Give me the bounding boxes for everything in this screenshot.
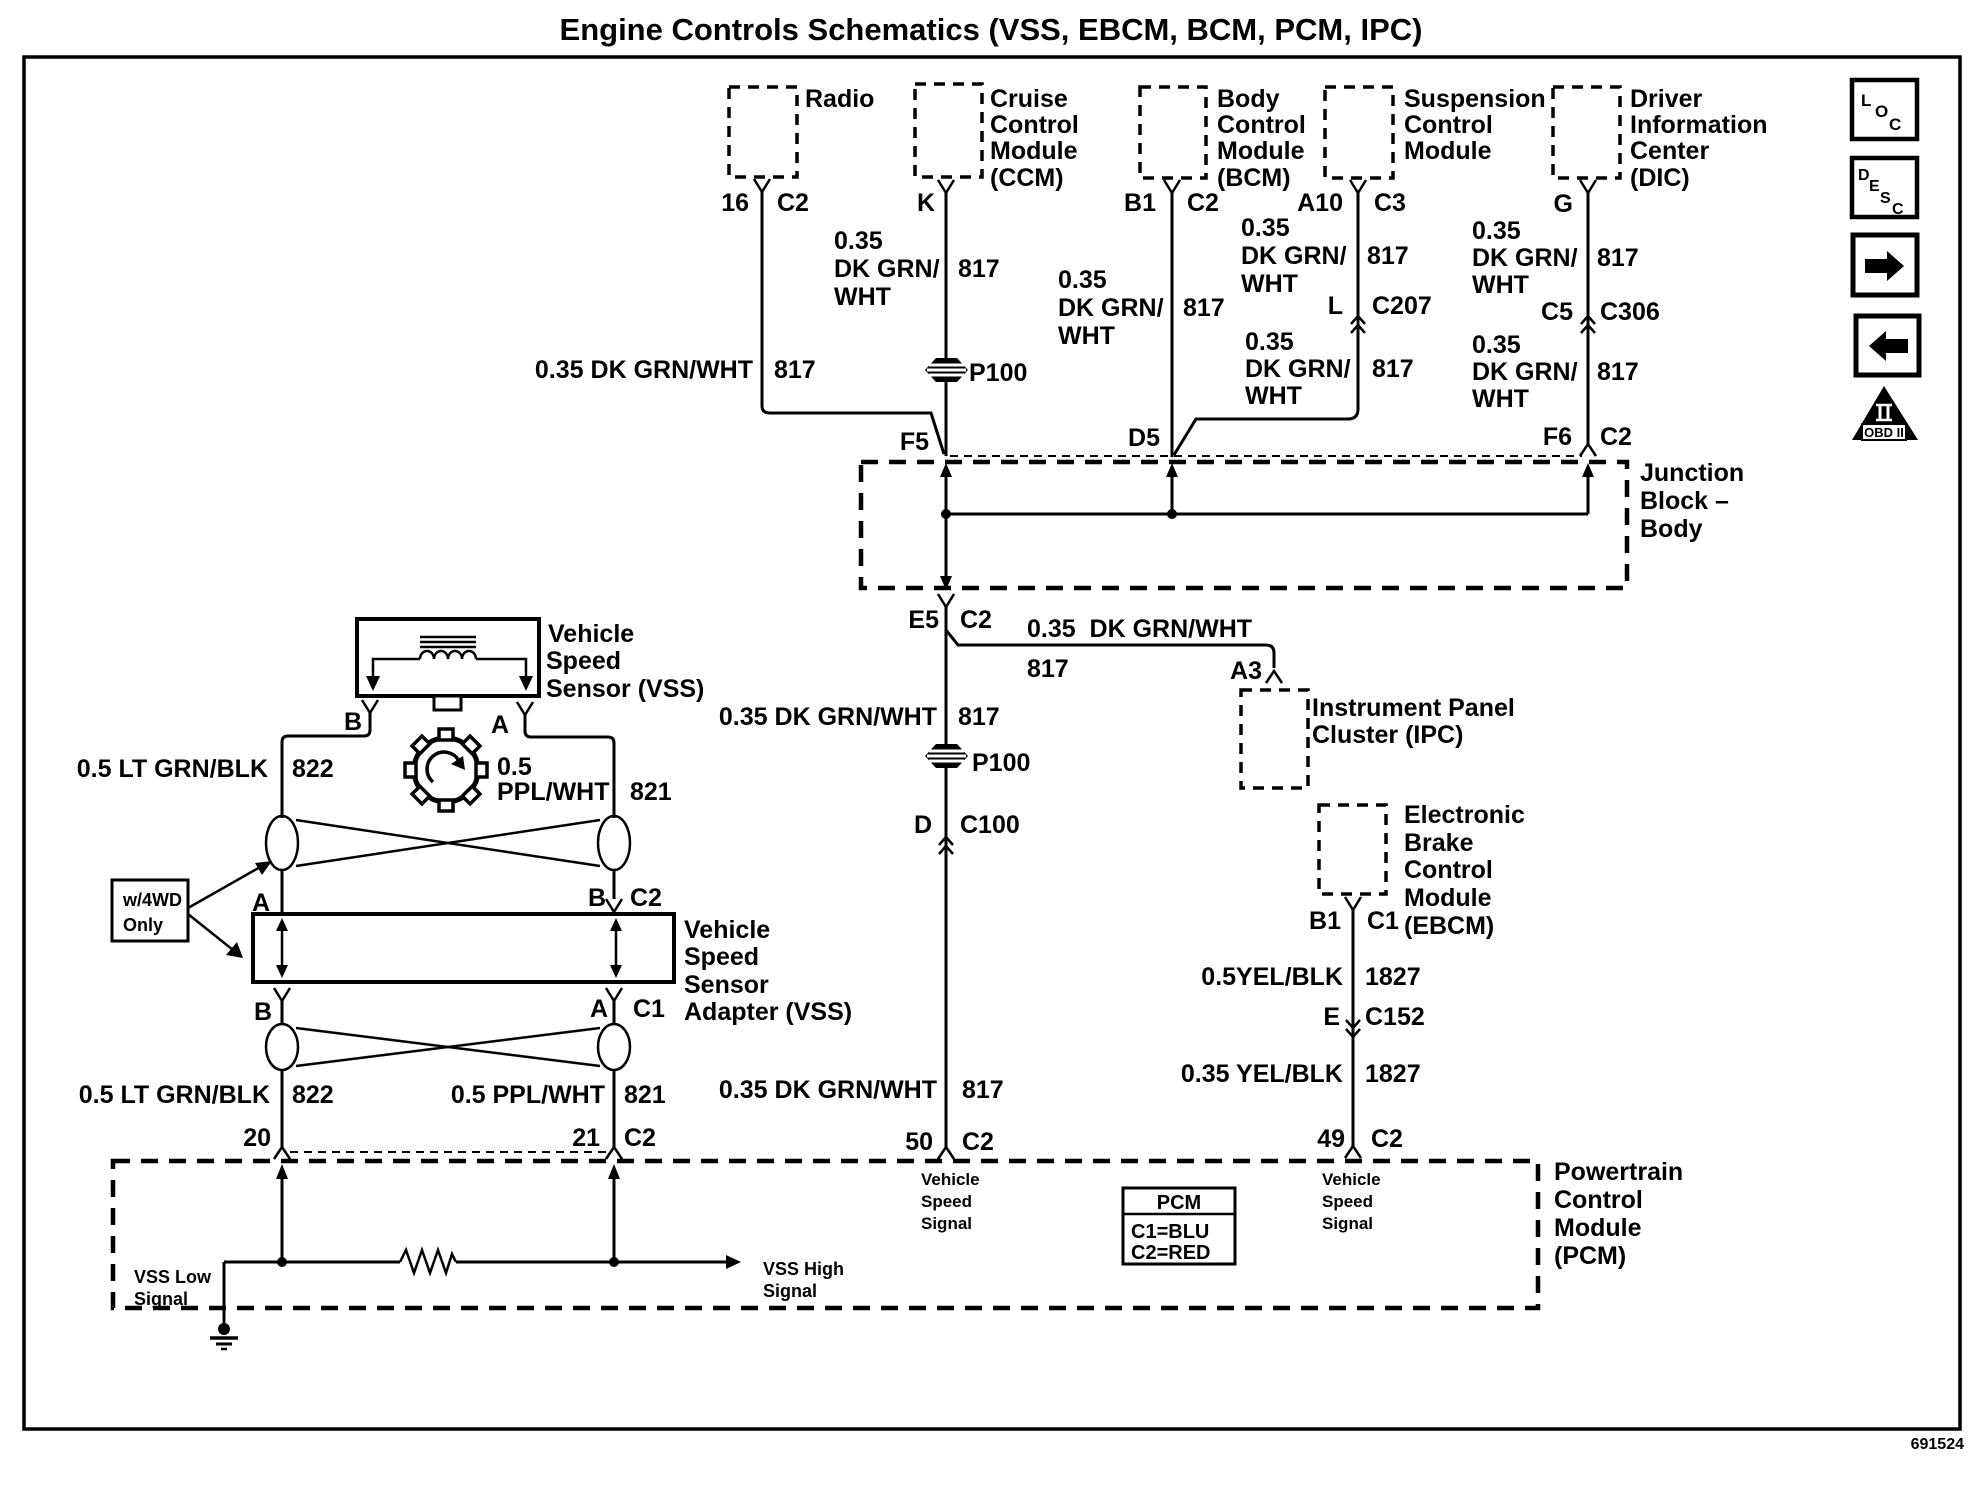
svg-text:Control: Control: [1217, 111, 1306, 139]
svg-text:B1: B1: [1124, 189, 1156, 217]
svg-text:Only: Only: [123, 915, 163, 935]
node dot at pin 21 bus: [609, 1257, 619, 1267]
svg-text:Speed: Speed: [546, 647, 621, 675]
PCM internal bus VSS low to resistor: [224, 1261, 400, 1264]
pin B1 C2 connector fork under BCM: [1124, 180, 1219, 217]
svg-text:50: 50: [905, 1128, 933, 1156]
svg-text:Signal: Signal: [134, 1289, 188, 1309]
svg-text:PCM: PCM: [1157, 1192, 1201, 1214]
PCM internal wire pin 21 with up arrow: [608, 1164, 620, 1262]
svg-text:Control: Control: [1404, 856, 1493, 884]
svg-text:0.35 DK GRN/WHT: 0.35 DK GRN/WHT: [535, 356, 753, 384]
svg-text:L: L: [1861, 91, 1871, 110]
module Radio (dashed box): [729, 85, 874, 177]
net label VSS High Signal: [763, 1259, 844, 1301]
svg-text:Body: Body: [1640, 515, 1703, 543]
svg-text:C2=RED: C2=RED: [1131, 1242, 1210, 1264]
VSS inductor core lines: [420, 637, 476, 647]
svg-text:0.35: 0.35: [1472, 331, 1521, 359]
svg-text:Control: Control: [1554, 1186, 1643, 1214]
svg-text:C: C: [1892, 201, 1904, 218]
svg-text:P100: P100: [969, 359, 1027, 387]
junction internal bus wire: [946, 513, 1588, 516]
wire Suspension A10 to junction D5 with labels: [1174, 193, 1414, 455]
svg-text:VSS Low: VSS Low: [134, 1267, 212, 1287]
pin 16 C2 connector fork under Radio: [721, 179, 809, 217]
svg-text:Speed: Speed: [921, 1192, 972, 1211]
junction internal wire to E5 exit with down arrow: [940, 514, 952, 590]
connector fork E5 C2 below junction block: [908, 594, 992, 634]
svg-text:49: 49: [1317, 1125, 1345, 1153]
svg-text:Speed: Speed: [1322, 1192, 1373, 1211]
module Driver Information Center (DIC) dashed box: [1553, 85, 1768, 192]
connector D C100 (inline double chevron): [914, 811, 1020, 854]
svg-text:Module: Module: [1554, 1214, 1642, 1242]
svg-text:Signal: Signal: [921, 1214, 972, 1233]
net label Vehicle Speed Signal (pin 49): [1322, 1170, 1381, 1233]
svg-text:(PCM): (PCM): [1554, 1242, 1626, 1270]
svg-text:Signal: Signal: [1322, 1214, 1373, 1233]
ground symbol: [210, 1323, 238, 1349]
adapter internal double arrow (left): [276, 918, 288, 978]
svg-text:Adapter (VSS): Adapter (VSS): [684, 998, 852, 1026]
svg-text:C1: C1: [633, 995, 665, 1023]
svg-text:C1=BLU: C1=BLU: [1131, 1221, 1209, 1243]
svg-text:817: 817: [958, 703, 1000, 731]
pin A connector fork under VSS: [491, 702, 533, 739]
pin G connector fork under DIC: [1554, 180, 1596, 218]
svg-text:WHT: WHT: [1245, 382, 1302, 410]
svg-text:C2: C2: [1187, 189, 1219, 217]
svg-text:691524: 691524: [1911, 1436, 1964, 1453]
svg-text:0.35: 0.35: [1245, 328, 1294, 356]
svg-text:817: 817: [1027, 655, 1069, 683]
svg-text:(CCM): (CCM): [990, 164, 1064, 192]
svg-text:K: K: [917, 189, 935, 217]
wire Radio pin 16 to junction F5 (0.35 DK GRN/WHT 817): [535, 192, 944, 454]
svg-text:B: B: [344, 708, 362, 736]
wire VSS low to ground: [223, 1262, 226, 1323]
w/4WD callout arrow to twisted pair: [188, 861, 272, 908]
svg-text:1827: 1827: [1365, 963, 1421, 991]
svg-text:WHT: WHT: [834, 283, 891, 311]
net label Vehicle Speed Signal (pin 50): [921, 1170, 980, 1233]
svg-text:E: E: [1869, 178, 1880, 195]
wire twisted pair to adapter (left): [281, 870, 284, 914]
svg-text:16: 16: [721, 189, 749, 217]
connector C5 C306 (inline double chevron): [1541, 298, 1660, 333]
grommet P100 (lower): [925, 744, 1030, 777]
connector fork B C2 above adapter: [588, 884, 662, 912]
svg-text:PPL/WHT: PPL/WHT: [497, 778, 610, 806]
svg-text:0.35: 0.35: [834, 227, 883, 255]
svg-text:E: E: [1323, 1003, 1340, 1031]
svg-text:Junction: Junction: [1640, 459, 1744, 487]
svg-text:0.35 YEL/BLK: 0.35 YEL/BLK: [1181, 1060, 1343, 1088]
svg-text:WHT: WHT: [1241, 270, 1298, 298]
svg-text:O: O: [1875, 102, 1888, 121]
svg-text:Module: Module: [1217, 137, 1305, 165]
wire to PCM pin 21 (0.5 PPL/WHT 821): [451, 1070, 666, 1147]
svg-text:0.5 LT GRN/BLK: 0.5 LT GRN/BLK: [77, 755, 268, 783]
wire BCM pin B1 to junction D5: [1058, 193, 1225, 457]
PCM internal wire pin 20 with up arrow: [276, 1164, 288, 1262]
svg-text:Vehicle: Vehicle: [548, 620, 634, 648]
connector E C152 (inline double chevron down): [1346, 1020, 1360, 1037]
component Vehicle Speed Sensor (VSS) box: [357, 619, 704, 703]
junction node dot at F5: [941, 509, 951, 519]
svg-text:C2: C2: [962, 1128, 994, 1156]
svg-text:VSS High: VSS High: [763, 1259, 844, 1279]
svg-text:C207: C207: [1372, 292, 1432, 320]
connector fork pin 50 C2 at PCM: [905, 1128, 994, 1159]
svg-text:817: 817: [1183, 294, 1225, 322]
pin B1 C1 connector fork under EBCM: [1309, 897, 1399, 935]
connector row fine dashed line pin 20 to pin 21: [290, 1151, 606, 1153]
svg-text:(EBCM): (EBCM): [1404, 912, 1494, 940]
svg-text:0.35: 0.35: [1241, 214, 1290, 242]
svg-text:Sensor: Sensor: [684, 971, 769, 999]
svg-text:0.35: 0.35: [1472, 217, 1521, 245]
svg-text:817: 817: [962, 1076, 1004, 1104]
svg-text:DK GRN/: DK GRN/: [1472, 358, 1578, 386]
svg-text:C152: C152: [1365, 1003, 1425, 1031]
Junction Block - Body (dashed box): [861, 459, 1744, 588]
wire label 0.35 DK GRN/WHT 817 above PCM pin 50: [719, 1076, 1004, 1104]
svg-text:WHT: WHT: [1472, 271, 1529, 299]
svg-text:Engine Controls Schematics (VS: Engine Controls Schematics (VSS, EBCM, B…: [560, 12, 1423, 47]
svg-text:Information: Information: [1630, 111, 1768, 139]
icon forward arrow box: [1853, 235, 1917, 295]
svg-text:821: 821: [624, 1081, 666, 1109]
junction internal wire F6 branch with up arrow: [1582, 463, 1594, 514]
svg-text:C2: C2: [630, 884, 662, 912]
svg-text:Suspension: Suspension: [1404, 85, 1546, 113]
module Instrument Panel Cluster (IPC) dashed box: [1241, 690, 1515, 788]
svg-text:0.5 LT GRN/BLK: 0.5 LT GRN/BLK: [79, 1081, 270, 1109]
svg-text:OBD II: OBD II: [1864, 425, 1904, 440]
svg-text:0.5: 0.5: [497, 753, 532, 781]
svg-text:817: 817: [958, 255, 1000, 283]
svg-text:0.35 DK GRN/WHT: 0.35 DK GRN/WHT: [719, 1076, 937, 1104]
svg-text:Signal: Signal: [763, 1281, 817, 1301]
reluctor wheel (toothed ring with rotation arrow): [405, 729, 487, 811]
icon LOC box: [1852, 80, 1917, 139]
svg-text:Module: Module: [1404, 884, 1492, 912]
svg-text:1827: 1827: [1365, 1060, 1421, 1088]
svg-text:D: D: [1858, 167, 1870, 184]
connector fork A C1 below adapter: [590, 988, 665, 1023]
wire adapter B to twisted pair lower left: [281, 1001, 284, 1025]
junction node dot at D5: [1167, 509, 1177, 519]
svg-text:C1: C1: [1367, 907, 1399, 935]
svg-text:C100: C100: [960, 811, 1020, 839]
svg-text:C5: C5: [1541, 298, 1573, 326]
svg-text:Driver: Driver: [1630, 85, 1703, 113]
module Suspension Control Module dashed box: [1325, 85, 1546, 178]
svg-text:B: B: [254, 998, 272, 1026]
svg-text:Module: Module: [990, 137, 1078, 165]
svg-text:F6: F6: [1543, 423, 1572, 451]
VSS mounting tab: [434, 696, 461, 710]
wire VSS pin B to twisted pair (0.5 LT GRN/BLK 822): [77, 713, 370, 818]
svg-text:0.35: 0.35: [1058, 266, 1107, 294]
connector fork B below adapter: [254, 988, 290, 1026]
svg-text:WHT: WHT: [1058, 322, 1115, 350]
twisted pair symbol (lower): [266, 1024, 630, 1070]
svg-text:C: C: [1889, 115, 1901, 134]
svg-text:822: 822: [292, 1081, 334, 1109]
svg-text:C2: C2: [960, 606, 992, 634]
VSS internal wiring with arrows: [366, 659, 533, 691]
w/4WD Only note box: [112, 880, 188, 941]
svg-text:(DIC): (DIC): [1630, 164, 1690, 192]
svg-text:G: G: [1554, 190, 1573, 218]
svg-text:817: 817: [1597, 244, 1639, 272]
svg-text:817: 817: [1597, 358, 1639, 386]
connector fork A3 at IPC: [1266, 671, 1282, 683]
icon DESC box: [1852, 158, 1917, 218]
connector fork pin 49 C2 at PCM: [1317, 1125, 1403, 1158]
svg-text:DK GRN/: DK GRN/: [1058, 294, 1164, 322]
svg-text:C2: C2: [777, 189, 809, 217]
svg-text:817: 817: [774, 356, 816, 384]
svg-text:20: 20: [243, 1124, 271, 1152]
svg-text:0.35 DK GRN/WHT: 0.35 DK GRN/WHT: [1027, 615, 1252, 643]
VSS inductor coil: [420, 651, 476, 659]
svg-text:C2: C2: [624, 1124, 656, 1152]
svg-text:Center: Center: [1630, 137, 1709, 165]
module Body Control Module (BCM) dashed box: [1140, 85, 1306, 192]
svg-text:Brake: Brake: [1404, 829, 1474, 857]
svg-text:w/4WD: w/4WD: [122, 890, 182, 910]
svg-text:Control: Control: [1404, 111, 1493, 139]
net label VSS Low Signal: [134, 1267, 212, 1309]
svg-text:(BCM): (BCM): [1217, 164, 1291, 192]
component Vehicle Speed Sensor Adapter (VSS) box: [253, 914, 852, 1026]
node dot at pin 20 bus: [277, 1257, 287, 1267]
svg-text:Instrument Panel: Instrument Panel: [1312, 694, 1515, 722]
svg-text:Speed: Speed: [684, 943, 759, 971]
twisted pair symbol (upper): [266, 816, 630, 870]
svg-text:Block –: Block –: [1640, 487, 1729, 515]
svg-text:B: B: [588, 884, 606, 912]
svg-text:DK GRN/: DK GRN/: [1245, 355, 1351, 383]
grommet P100 (upper): [925, 358, 1027, 387]
wire CCM pin K to junction F5: [834, 193, 1000, 456]
svg-text:E5: E5: [908, 606, 939, 634]
module Cruise Control Module (CCM) dashed box: [915, 84, 1079, 192]
wire E5 down to PCM pin 50 (vertical trunk): [719, 607, 1000, 1148]
svg-text:817: 817: [1372, 355, 1414, 383]
svg-text:Module: Module: [1404, 137, 1492, 165]
svg-text:S: S: [1880, 190, 1891, 207]
pin B connector fork under VSS: [344, 700, 378, 736]
svg-text:0.5YEL/BLK: 0.5YEL/BLK: [1201, 963, 1343, 991]
svg-text:A10: A10: [1297, 189, 1343, 217]
svg-text:Body: Body: [1217, 85, 1280, 113]
w/4WD callout arrow to adapter: [188, 914, 243, 958]
svg-text:C306: C306: [1600, 298, 1660, 326]
svg-text:D: D: [914, 811, 932, 839]
wire adapter A to twisted pair lower right: [613, 1001, 616, 1025]
PCM connector legend box: [1123, 1188, 1235, 1264]
svg-text:A: A: [491, 711, 509, 739]
pin A10 C3 connector fork under Suspension module: [1297, 180, 1406, 217]
wire twisted pair to adapter fork (right): [613, 870, 616, 899]
icon OBD II triangle: [1852, 386, 1918, 440]
svg-text:F5: F5: [900, 428, 929, 456]
junction internal wire D5 branch with up arrow: [1166, 463, 1178, 514]
svg-text:P100: P100: [972, 749, 1030, 777]
svg-text:B1: B1: [1309, 907, 1341, 935]
svg-text:822: 822: [292, 755, 334, 783]
svg-text:C3: C3: [1374, 189, 1406, 217]
svg-text:L: L: [1328, 292, 1343, 320]
svg-text:Electronic: Electronic: [1404, 801, 1525, 829]
svg-text:A: A: [590, 995, 608, 1023]
svg-text:D5: D5: [1128, 424, 1160, 452]
connector fork F6 C2 at junction block: [1543, 423, 1632, 456]
svg-text:Vehicle: Vehicle: [684, 916, 770, 944]
svg-text:Cluster (IPC): Cluster (IPC): [1312, 721, 1463, 749]
svg-text:0.5 PPL/WHT: 0.5 PPL/WHT: [451, 1081, 605, 1109]
wire DIC pin G to junction F6 with labels: [1472, 193, 1639, 445]
svg-text:821: 821: [630, 778, 672, 806]
svg-text:Vehicle: Vehicle: [921, 1170, 980, 1189]
svg-text:Radio: Radio: [805, 85, 874, 113]
connector fork pin 21 C2 at PCM: [572, 1124, 656, 1159]
wire to PCM pin 20 (0.5 LT GRN/BLK 822): [79, 1070, 334, 1147]
wire VSS pin A to twisted pair (0.5 PPL/WHT 821): [497, 715, 672, 818]
svg-text:C2: C2: [1600, 423, 1632, 451]
junction internal wire F5 branch with up arrow: [940, 463, 952, 514]
svg-text:A3: A3: [1230, 657, 1262, 685]
svg-text:Cruise: Cruise: [990, 85, 1068, 113]
svg-text:0.35 DK GRN/WHT: 0.35 DK GRN/WHT: [719, 703, 937, 731]
pin K connector fork under CCM: [917, 180, 954, 217]
module Electronic Brake Control Module (EBCM) dashed box: [1319, 801, 1525, 940]
svg-text:Sensor (VSS): Sensor (VSS): [546, 675, 704, 703]
PCM internal bus resistor to VSS high arrow: [456, 1255, 741, 1269]
svg-text:21: 21: [572, 1124, 600, 1152]
connector fork pin 20 at PCM: [243, 1124, 290, 1159]
svg-text:C2: C2: [1371, 1125, 1403, 1153]
connector L C207 (inline double chevron): [1328, 292, 1432, 333]
svg-text:Powertrain: Powertrain: [1554, 1158, 1683, 1186]
module Powertrain Control Module (PCM) dashed box: [113, 1158, 1683, 1308]
svg-text:Control: Control: [990, 111, 1079, 139]
svg-text:817: 817: [1367, 242, 1409, 270]
wire branch E5 to IPC pin A3 (0.35 DK GRN/WHT 817): [946, 615, 1274, 685]
resistor (VSS signal): [400, 1250, 456, 1273]
svg-text:DK GRN/: DK GRN/: [1241, 242, 1347, 270]
svg-text:Vehicle: Vehicle: [1322, 1170, 1381, 1189]
icon back arrow box: [1856, 316, 1919, 375]
adapter internal double arrow (right): [610, 918, 622, 978]
svg-text:DK GRN/: DK GRN/: [834, 255, 940, 283]
svg-text:DK GRN/: DK GRN/: [1472, 244, 1578, 272]
svg-text:WHT: WHT: [1472, 385, 1529, 413]
connector row fine dashed line F5 to F6: [950, 455, 1582, 457]
wire EBCM B1 to PCM pin 49 (0.5YEL/BLK 1827): [1181, 910, 1425, 1146]
